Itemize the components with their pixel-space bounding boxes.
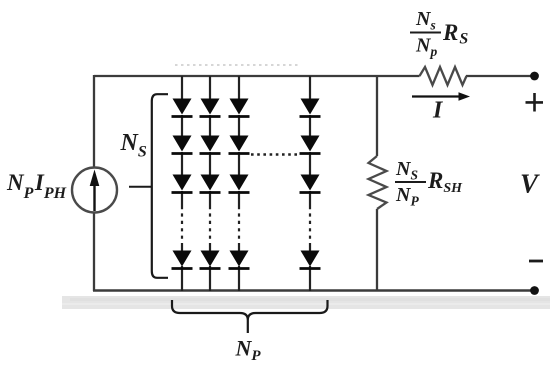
diode D34 — [229, 251, 250, 269]
wire top bus — [94, 75, 420, 77]
diode D41 — [300, 99, 321, 117]
dashed ellipsis wire between column 3 and 4 — [251, 153, 300, 155]
diode D13 — [172, 175, 193, 193]
brace Np bottom — [172, 300, 328, 333]
shunt resistor RSH branch wires — [376, 76, 378, 156]
wire left vertical upper — [93, 75, 95, 168]
diode column 3 wires — [238, 76, 240, 291]
watermark band — [62, 296, 550, 309]
faint dotted artifact line — [175, 64, 300, 66]
fraction bar — [410, 32, 441, 34]
current source U1 circle — [72, 168, 117, 213]
svg-text:I: I — [432, 98, 444, 124]
series resistor RS zigzag — [420, 67, 467, 85]
label minus — [529, 260, 543, 263]
current arrow I — [412, 92, 470, 100]
diode column 4 wires — [309, 76, 311, 291]
fraction bar — [395, 181, 426, 183]
resistor RSH zigzag — [369, 156, 387, 209]
brace Ns cusp tick — [129, 186, 152, 188]
diode D23 — [200, 175, 221, 193]
diode column 1 wires — [181, 76, 183, 291]
label plus — [526, 93, 544, 112]
diode D24 — [200, 251, 221, 269]
diode D31 — [229, 99, 250, 117]
diode D21 — [200, 99, 221, 117]
current source arrow — [90, 170, 100, 212]
diode D44 — [300, 251, 321, 269]
diode D12 — [172, 136, 193, 154]
wire top right segment — [466, 75, 532, 77]
wire left vertical lower — [93, 213, 95, 292]
diode D14 — [172, 251, 193, 269]
diode D43 — [300, 175, 321, 193]
diode D22 — [200, 136, 221, 154]
svg-text:V: V — [520, 169, 540, 199]
diode D42 — [300, 136, 321, 154]
wire bottom bus — [93, 289, 533, 292]
diode D11 — [172, 99, 193, 117]
terminal node + dot top — [530, 72, 539, 81]
diode column 2 wires — [209, 76, 211, 291]
diode D32 — [229, 136, 250, 154]
diode D33 — [229, 175, 250, 193]
terminal node - dot bottom — [530, 286, 539, 295]
brace Ns — [152, 94, 168, 278]
